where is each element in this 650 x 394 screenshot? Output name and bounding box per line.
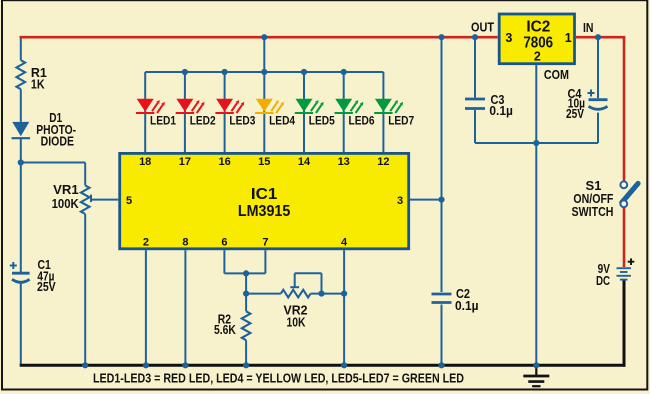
LED3	[215, 99, 244, 113]
svg-text:16: 16	[218, 156, 230, 168]
switch S1 ON/OFF	[620, 181, 638, 207]
svg-text:10K: 10K	[287, 315, 306, 330]
node junction 21	[438, 362, 444, 368]
svg-text:7: 7	[262, 237, 268, 249]
wire right rail down to switch S1	[623, 37, 626, 181]
capacitor C2 0.1u	[432, 293, 452, 296]
regulator IC2 7806 body	[499, 14, 574, 64]
wire C2 vertical from +9V rail to ground rail	[441, 37, 443, 292]
node junction 6	[222, 69, 228, 75]
node junction 17	[143, 362, 149, 368]
ground symbol	[523, 365, 549, 386]
svg-text:LED6: LED6	[349, 115, 375, 127]
wire IC1 pin 2 to ground rail	[145, 250, 147, 365]
svg-text:IC1: IC1	[251, 186, 278, 203]
svg-text:2: 2	[534, 50, 541, 64]
svg-text:DC: DC	[596, 273, 611, 288]
resistor R1 1K	[17, 60, 26, 89]
svg-text:LED1: LED1	[150, 115, 177, 127]
wire C3 vertical	[474, 37, 476, 97]
wire ground bottom rail	[20, 364, 626, 367]
LED2	[176, 99, 205, 113]
svg-text:18: 18	[139, 156, 151, 168]
op IC1 LM3915 body	[120, 153, 409, 248]
wire VR2 wiper bracket	[295, 272, 322, 274]
capacitor C1 47u 25V (polarised)	[12, 272, 30, 275]
wire VR2 wiper tee bar	[290, 286, 299, 288]
svg-text:2: 2	[143, 237, 149, 249]
node junction 4	[595, 34, 601, 40]
wire IC1 pin 8 to ground rail	[184, 250, 186, 365]
node junction 22	[533, 362, 539, 368]
svg-text:0.1µ: 0.1µ	[455, 298, 479, 313]
svg-text:IN: IN	[583, 20, 594, 35]
wire IC1 pin 4 to ground rail	[343, 250, 345, 365]
node junction 23	[533, 140, 539, 146]
wire IC1 pin 3 to C2 line	[410, 199, 442, 201]
svg-text:LED4: LED4	[269, 115, 296, 127]
wire R2 top node to VR2 left terminal	[246, 293, 281, 295]
wire battery negative down right side	[623, 281, 626, 367]
svg-text:LED5: LED5	[309, 115, 336, 127]
svg-text:25V: 25V	[566, 106, 584, 121]
svg-text:0.1µ: 0.1µ	[489, 103, 513, 118]
svg-text:OUT: OUT	[471, 19, 494, 34]
svg-text:6: 6	[221, 237, 227, 249]
svg-text:8: 8	[182, 237, 188, 249]
wire +9V rail feed down to LED bus	[263, 37, 265, 72]
LED5	[295, 99, 324, 113]
LED4	[255, 99, 284, 113]
wire IC1 pin 7 down	[264, 250, 266, 273]
svg-text:4: 4	[341, 237, 348, 249]
wire VR2 right terminal to IC1 pin 4 line	[311, 293, 345, 295]
svg-text:VR1: VR1	[53, 182, 79, 197]
wire IC2 pin 1 (IN) to right rail corner	[576, 36, 625, 39]
svg-text:LED1-LED3 = RED LED, LED4 = YE: LED1-LED3 = RED LED, LED4 = YELLOW LED, …	[93, 372, 464, 386]
wire VR1 bottom to ground rail	[84, 214, 86, 365]
wire LED7 branch from bus to IC1 pin 12	[382, 72, 384, 152]
svg-text:LED2: LED2	[190, 115, 216, 127]
potentiometer VR2 10K	[281, 290, 311, 298]
wire LED2 branch from bus to IC1 pin 17	[184, 72, 186, 152]
wire D1 cathode junction to VR1 top	[21, 162, 85, 164]
svg-text:LED7: LED7	[388, 115, 414, 127]
svg-text:IC2: IC2	[526, 19, 550, 36]
wire VR1 wiper to IC1 pin 5	[90, 195, 92, 203]
svg-text:1K: 1K	[31, 76, 45, 91]
node junction 20	[341, 362, 347, 368]
node junction 7	[261, 69, 267, 75]
node junction 18	[182, 362, 188, 368]
node junction 5	[182, 69, 188, 75]
node junction 15	[341, 291, 347, 297]
svg-text:DIODE: DIODE	[41, 134, 75, 149]
node junction 10	[18, 159, 24, 165]
wire C4 vertical	[597, 37, 599, 98]
node junction 12	[243, 270, 249, 276]
battery BT1 9V DC	[617, 268, 631, 279]
battery plus sign	[628, 261, 635, 263]
wire LED5 branch from bus to IC1 pin 14	[303, 72, 305, 152]
LED1	[136, 99, 165, 113]
svg-text:5: 5	[126, 195, 132, 207]
svg-text:3: 3	[505, 31, 512, 45]
svg-text:13: 13	[338, 156, 350, 168]
wire +V red rail from left corner to IC2 pin 3 (OUT)	[20, 36, 498, 39]
wire pins 6/7 node down to R2 top node	[245, 273, 247, 293]
node junction 3	[472, 34, 478, 40]
node junction 2	[438, 34, 444, 40]
wire LED3 branch from bus to IC1 pin 16	[224, 72, 226, 152]
wire C3 bottom to C4 bottom	[475, 142, 598, 144]
wire IC1 pin 6 down	[223, 250, 225, 273]
node junction 1	[261, 34, 267, 40]
LED7	[374, 99, 403, 113]
svg-text:5.6K: 5.6K	[214, 322, 236, 337]
svg-text:12: 12	[377, 156, 389, 168]
wire R2 body leads	[245, 294, 247, 312]
svg-text:3: 3	[397, 195, 403, 207]
node junction 19	[243, 362, 249, 368]
node junction 16	[82, 362, 88, 368]
capacitor C4 10u 25V (polarised)	[589, 98, 608, 101]
svg-text:LED3: LED3	[229, 115, 255, 127]
wire LED6 branch from bus to IC1 pin 13	[343, 72, 345, 152]
svg-text:17: 17	[179, 156, 191, 168]
wire LED1 branch from bus to IC1 pin 18	[144, 72, 146, 152]
svg-text:15: 15	[258, 156, 270, 168]
node junction 13	[243, 291, 249, 297]
svg-text:100K: 100K	[52, 196, 80, 211]
potentiometer VR1 100K	[81, 185, 90, 214]
LED6	[335, 99, 364, 113]
svg-text:LM3915: LM3915	[238, 203, 291, 220]
node junction 8	[301, 69, 307, 75]
wire LED4 branch from bus to IC1 pin 15	[263, 72, 265, 152]
wire joining pins 6 and 7	[224, 272, 265, 274]
node junction 9	[341, 69, 347, 75]
capacitor C3 0.1u	[465, 98, 485, 101]
wire switch S1 to battery positive	[623, 207, 626, 267]
svg-text:COM: COM	[544, 67, 569, 82]
svg-text:25V: 25V	[37, 279, 56, 294]
resistor R2 5.6K	[242, 311, 251, 340]
svg-text:14: 14	[298, 156, 311, 168]
svg-text:SWITCH: SWITCH	[572, 204, 614, 219]
photodiode D1	[12, 122, 29, 136]
wire +9V left rail vertical (top-left corner down to ground rail)	[20, 37, 22, 60]
svg-text:1: 1	[565, 31, 572, 45]
node junction 14	[318, 291, 324, 297]
wire LED anode bus	[145, 71, 383, 73]
wire IC2 COM pin 2 down to ground rail	[535, 65, 537, 365]
node junction 11	[438, 197, 444, 203]
